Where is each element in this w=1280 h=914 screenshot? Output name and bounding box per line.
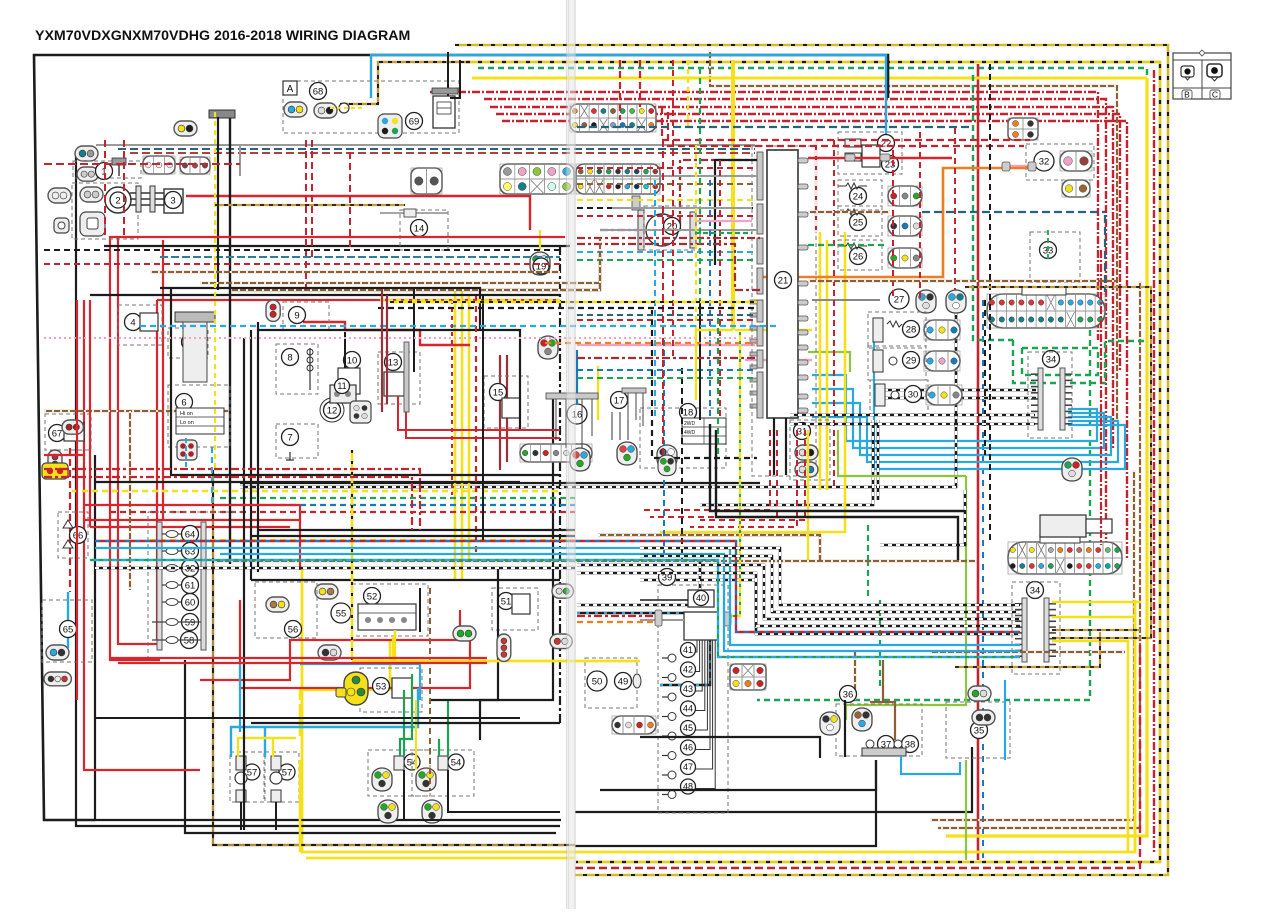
label 56 <box>285 621 302 638</box>
wire black below 21 a <box>773 418 775 475</box>
fuse 62 element <box>162 565 199 572</box>
wire black v x244 ext <box>243 588 245 830</box>
connector 4dot near 12 <box>350 401 371 423</box>
label 34 upper <box>1043 351 1060 368</box>
wire blueblack v x1105 <box>1104 215 1106 292</box>
svg-text:11: 11 <box>337 381 346 391</box>
svg-text:21: 21 <box>778 275 789 286</box>
wire brown trunk mid <box>230 250 600 290</box>
relay 51 <box>512 594 530 614</box>
connector below 55 <box>318 645 341 660</box>
connector 34 lower left bar <box>1015 598 1027 662</box>
connector (Gy) long center <box>520 444 592 462</box>
wire green belt <box>220 497 575 499</box>
dashed box 4 <box>118 305 162 345</box>
switch table 18 <box>682 418 726 444</box>
wire blue 16 v <box>576 350 578 404</box>
svg-text:67: 67 <box>52 428 63 439</box>
label fuse 60 <box>182 594 199 611</box>
dashed box 56 <box>255 582 317 638</box>
wire black L pair b <box>716 430 958 560</box>
wire red h y320 right <box>577 319 757 321</box>
wire black v x483 <box>482 296 484 540</box>
connector 32 oval <box>1060 151 1092 171</box>
wire brown h y283 <box>200 238 600 283</box>
wire yellow 57 area v <box>299 760 302 852</box>
label 52 <box>364 588 381 605</box>
page seam overlay <box>566 0 576 909</box>
wire green bottom left drop <box>867 525 869 560</box>
wire maroon v pair 2 <box>506 355 508 462</box>
label 6 <box>176 394 193 411</box>
svg-text:2: 2 <box>115 195 120 206</box>
inline resistor 24 <box>838 183 867 189</box>
label 66 <box>70 527 87 544</box>
wire black top-left col <box>250 330 252 580</box>
wire yellow drop 57-2 <box>272 738 274 757</box>
wire yellow 28 stub <box>735 329 812 332</box>
svg-text:41: 41 <box>683 645 693 655</box>
inline fuse 14 <box>380 209 448 217</box>
wire yellow nest right 3 <box>1052 641 1128 852</box>
label 57-2 <box>279 764 295 780</box>
battery bar <box>209 110 235 118</box>
sensor stub 47 <box>662 771 676 779</box>
dashed box 8 <box>276 344 318 394</box>
label 15 <box>490 384 507 401</box>
wire brown v 53 <box>429 588 431 790</box>
wire black row b3 <box>577 565 1020 619</box>
wire black solid y536 <box>252 535 575 537</box>
wire green fan <box>695 232 752 234</box>
label 10 <box>344 352 361 369</box>
wire red v x955 <box>954 128 956 290</box>
wire pink 32 <box>1008 165 1034 167</box>
label 9 <box>289 307 306 324</box>
connector tri 18 a <box>570 448 590 471</box>
wire black h y737 <box>640 737 820 758</box>
wire brown right col 2 <box>938 281 1140 828</box>
dashed box 67 <box>45 414 91 450</box>
dashed box 57-1 <box>230 752 264 802</box>
label 44 <box>681 701 696 716</box>
svg-text:30: 30 <box>908 389 919 400</box>
label 27 <box>889 289 909 309</box>
wire red v x920 <box>919 132 921 300</box>
wire maroon v x382 <box>381 289 383 412</box>
wire brown row y212 <box>808 211 890 213</box>
wire maroon v x387 <box>386 295 388 404</box>
wire maroon row y358 <box>577 357 757 359</box>
label 39 <box>659 569 676 586</box>
label 17 <box>611 392 628 409</box>
wire green row y245 <box>808 244 885 246</box>
svg-text:9: 9 <box>294 310 299 321</box>
connector 32 oval b <box>1062 180 1090 197</box>
wire belt right red 1 <box>577 167 757 169</box>
dashed box 54-1 <box>368 750 430 796</box>
wire green 54 <box>403 690 405 756</box>
wire sky-blue bus loop 1 <box>812 375 1097 441</box>
label 8 <box>282 349 299 366</box>
connector 34 upper right bar <box>1060 368 1072 430</box>
sensor stub 43 <box>662 693 676 701</box>
wire red left col 1 <box>84 300 200 770</box>
connector 34 lower right bar <box>1044 598 1056 662</box>
connector seam a <box>552 584 573 598</box>
svg-text:Lo on: Lo on <box>180 420 194 426</box>
connector tri below 17 b <box>657 445 677 468</box>
svg-text:36: 36 <box>843 689 854 700</box>
dashed box 34 upper <box>1028 352 1072 438</box>
wire blue dash h y370 <box>577 369 757 371</box>
sensor stub 45 <box>662 732 676 740</box>
wire red v x157 <box>156 300 158 640</box>
wire sky-blue bus loop 2 <box>812 389 1104 448</box>
label 65 <box>60 621 77 638</box>
dashed box 35 <box>946 702 1010 758</box>
svg-text:10: 10 <box>347 355 358 366</box>
wire sky-blue bus loop 3 <box>812 403 1111 455</box>
trunk black left vertical 2 <box>95 455 561 820</box>
label 4 <box>125 314 142 331</box>
label 1 <box>96 163 113 180</box>
sensor 12 sym <box>320 398 344 422</box>
wire yellow nest right 2 <box>1052 617 1135 852</box>
wire yellow bus area v2 <box>826 240 829 490</box>
wire red bundle bus right v1 <box>700 430 805 520</box>
svg-text:YXM70VDXGNXM70VDHG 2016-2018 W: YXM70VDXGNXM70VDHG 2016-2018 WIRING DIAG… <box>35 28 410 44</box>
wire blue v x664 <box>663 340 665 560</box>
wire red h y663 <box>118 662 487 664</box>
wire brown h y272 <box>150 271 560 273</box>
connector tri 17 extra <box>658 455 676 476</box>
fuse 63 element <box>162 548 199 555</box>
label 19 <box>533 258 549 274</box>
svg-text:26: 26 <box>853 251 864 262</box>
wire yellow left-center v2 <box>461 290 464 580</box>
wire red v x110 <box>110 236 160 660</box>
wire brown/yellow bottom left <box>213 470 575 845</box>
fan motor 20 <box>632 196 696 250</box>
dashed box 9 <box>283 302 329 330</box>
wire red v right of bus <box>833 140 835 490</box>
sensor 11 block <box>330 385 356 403</box>
relay 69 box <box>433 96 455 128</box>
dashed box 33 <box>1030 232 1080 282</box>
wire red dash v x70 <box>69 448 71 592</box>
plug 7 <box>286 452 294 460</box>
hanging pins 17 <box>628 393 643 426</box>
svg-text:29: 29 <box>906 355 917 366</box>
wire cyan belt 2 <box>211 447 213 505</box>
wire red v x118 <box>118 236 160 644</box>
fuse 64 element <box>162 531 199 538</box>
pump 37-38 <box>862 740 906 756</box>
label 32 <box>1034 151 1054 171</box>
ECU connector (B) right <box>987 294 1105 328</box>
wire red margin 5 <box>502 121 1127 560</box>
trunk black right half bottom <box>575 747 972 812</box>
sensor 30 sym <box>875 384 899 406</box>
stud 32 left <box>1028 162 1036 171</box>
wire red/white margin 1 <box>430 92 1098 340</box>
wire red dash v x306 <box>305 140 307 292</box>
wire cyan/black row y315 <box>577 314 757 316</box>
svg-text:C: C <box>1212 90 1218 100</box>
wire black dash long y398 <box>876 397 1036 400</box>
dashed box 14 <box>400 210 448 250</box>
gray bar above 16 <box>546 393 598 399</box>
connector block mid-right (B) <box>576 164 660 194</box>
wire red box corner tr <box>662 107 1030 140</box>
wire cyan 53 route <box>300 664 420 700</box>
junction box 21 body <box>767 150 798 418</box>
wire red/blue row y541 <box>95 541 1020 632</box>
connector small sq <box>54 218 69 233</box>
wire yellow short 19 <box>539 230 541 250</box>
wire red v x720 mid <box>719 160 721 420</box>
wire red dash v x350 <box>349 152 351 250</box>
connector 33 area sq <box>1008 118 1038 140</box>
wire yellow long vertical x732 <box>731 60 735 330</box>
label 38 <box>902 736 919 753</box>
connector 54-1 tri b <box>378 800 398 823</box>
injector 57-2 <box>270 756 282 802</box>
dashed box 57-2 <box>265 752 299 802</box>
wire gray fan <box>612 207 752 209</box>
connector 65 b <box>44 672 71 686</box>
starter relay 3 box <box>164 189 183 213</box>
yellow connector block <box>42 463 68 479</box>
wire yellow v x696 <box>695 145 697 332</box>
wire black dash y415 <box>790 414 1035 417</box>
wire blue of pair <box>982 300 984 860</box>
wire yellow dash v x215 <box>214 112 216 470</box>
connector yellow/black top <box>174 121 197 136</box>
connector (B) right lower <box>1008 542 1122 574</box>
connector 69 4pin <box>378 114 402 138</box>
wire red v x640 top <box>639 60 641 107</box>
controller body <box>684 612 718 640</box>
wire black dash left of comb <box>640 580 1020 634</box>
wire yellow right col solid <box>946 78 1147 836</box>
svg-text:45: 45 <box>683 723 693 733</box>
wire olive h y205 <box>215 204 405 206</box>
connector tab right lower <box>1040 535 1080 543</box>
wire dark-red dash diag bundle <box>600 160 757 230</box>
connector 31 a <box>795 445 818 460</box>
fuse rail left <box>157 522 162 650</box>
wire black 57 drops b <box>275 802 277 830</box>
label 54-2 <box>448 754 464 770</box>
wire black box mid <box>258 330 520 430</box>
wire orange dash h y343 <box>545 342 757 344</box>
label 13 <box>385 354 402 371</box>
wire sky-blue top <box>371 55 886 146</box>
wire sky-blue bus loop 5 <box>874 340 1125 469</box>
wire red box corner tr2 <box>668 112 1024 146</box>
svg-text:25: 25 <box>853 217 864 228</box>
svg-text:47: 47 <box>683 762 693 772</box>
svg-text:68: 68 <box>313 86 324 97</box>
connector block top-middle (B) <box>570 104 656 132</box>
wire black dash v x965 <box>880 490 965 545</box>
wire harness outer yellow/black <box>455 45 1168 875</box>
wire red branch 58 <box>200 610 460 680</box>
label 53 <box>373 678 390 695</box>
label 50 <box>587 671 607 691</box>
wire brown v x130 <box>129 411 131 590</box>
wire black v 414 <box>413 288 415 372</box>
label 46 <box>681 740 696 755</box>
wire green inner box 34 <box>1022 348 1098 375</box>
wire yellow/black row y302 <box>390 301 757 303</box>
wire black row b4 <box>577 573 1020 626</box>
connector tri right mid <box>1062 458 1082 481</box>
wire belt right gray <box>577 175 757 177</box>
stud 32 outer <box>1002 162 1010 171</box>
wire blue/black h y149 <box>118 148 755 150</box>
wire green vertical center-right <box>973 75 1013 340</box>
wire blue/green row y560 <box>90 560 1020 657</box>
wire brown right col 1 <box>930 470 1134 820</box>
wire blueblack h y127 <box>577 126 973 128</box>
label 47 <box>681 760 696 775</box>
wire yellow v x808 low <box>807 430 809 560</box>
dashed box 6 <box>168 385 230 447</box>
sensor 28 sym <box>873 318 902 342</box>
wire yellow to 52 <box>300 640 390 700</box>
wire black solid y530 <box>258 529 575 531</box>
wire yellow/black v x352 <box>351 450 354 660</box>
wire red h y237 <box>110 236 565 238</box>
svg-text:54: 54 <box>451 757 462 768</box>
sensor stub 41 <box>662 654 676 662</box>
svg-text:51: 51 <box>501 596 512 607</box>
wire lime horizontal y476 <box>838 430 966 476</box>
wire lime vertical <box>846 476 966 720</box>
wire red v x163 <box>162 240 164 520</box>
svg-text:65: 65 <box>63 624 74 635</box>
wire red dash y469 <box>44 469 420 530</box>
wire black h 475 <box>170 474 560 476</box>
valve 54-2 <box>438 756 448 770</box>
wire cyan row y548 <box>95 548 1020 645</box>
svg-text:50: 50 <box>592 676 603 687</box>
wire black h y246 <box>104 245 570 247</box>
wire red dash y477 <box>44 477 412 530</box>
wire red v x476 <box>475 296 477 556</box>
wire red 13 b <box>406 396 560 438</box>
label 42 <box>681 662 696 677</box>
wire green down to 36 <box>879 600 881 690</box>
svg-text:2WD: 2WD <box>684 421 696 427</box>
wire blue dash 6 <box>185 438 187 468</box>
wire cyan 65 <box>67 592 69 648</box>
wire yellow dash h y490 <box>72 490 560 492</box>
label 18 <box>680 404 697 421</box>
svg-text:7: 7 <box>287 432 292 443</box>
wire belt left of bus cyan <box>577 251 757 253</box>
wire black h 482 <box>95 481 520 483</box>
label 33 <box>1040 242 1057 259</box>
wire red h y658 <box>110 657 487 659</box>
label 37 <box>878 736 895 753</box>
svg-text:69: 69 <box>409 116 420 127</box>
wire olive out y630 <box>1052 629 1140 631</box>
wire harness loop brown/yellow outer <box>340 62 470 104</box>
wire maroon v pair 1 <box>499 355 501 470</box>
svg-text:52: 52 <box>367 591 378 602</box>
wire belt right yellow <box>577 199 757 201</box>
label 14 <box>411 220 428 237</box>
wire red margin 4 <box>496 114 1120 372</box>
label fuse 61 <box>182 577 199 594</box>
svg-text:56: 56 <box>288 624 299 635</box>
connector 28 oval <box>924 320 960 340</box>
svg-text:59: 59 <box>185 617 196 628</box>
connector 68 cyan/yellow <box>284 102 307 117</box>
dashed box 30 <box>870 380 928 414</box>
wire yellow v 52drop <box>392 636 394 661</box>
sensor 13 <box>384 372 404 396</box>
label 35 <box>971 722 988 739</box>
label 45 <box>681 721 696 736</box>
connector left (Gy) a <box>48 188 71 203</box>
wire black 21 left stubs join <box>715 160 757 265</box>
wire green 54 b <box>447 700 449 756</box>
wire 68 to relay yellow <box>330 107 365 109</box>
sensor 29 sym <box>873 350 897 372</box>
dashed box 28 <box>868 312 926 348</box>
connector mid tri1 <box>538 336 558 359</box>
connector 68 b <box>314 103 337 118</box>
wire cyan row y554 <box>220 554 1020 651</box>
label 24 <box>850 188 867 205</box>
wire green 53 link <box>400 674 412 756</box>
wire brown center h y535 <box>598 535 820 560</box>
legend box B C <box>1173 50 1231 100</box>
fitting red row a <box>845 154 855 161</box>
connector 36 tri a <box>820 712 840 735</box>
dashed box 18 <box>640 408 726 468</box>
trunk black center tall <box>559 246 561 726</box>
wire red diag bundle b <box>650 430 777 517</box>
connector 31 b <box>795 462 818 477</box>
wire yellow margin top <box>472 77 1147 80</box>
connector (B) 6pin bottom <box>730 664 766 690</box>
wire olive out y638 <box>1052 560 1151 638</box>
wire red belt <box>110 511 575 513</box>
connector tri below 17 <box>617 442 637 465</box>
inline resistor 26 <box>838 243 867 249</box>
fuse 49 sym <box>633 674 641 688</box>
label 29 <box>903 352 920 369</box>
wire black/white bundle h1 <box>240 300 956 487</box>
wire green dash mid v x868 <box>867 560 869 600</box>
label 48 <box>681 779 696 794</box>
dashed box 32 <box>1026 144 1094 180</box>
connector 54-2 tri b <box>422 800 442 823</box>
wire black bottom right v <box>600 760 876 790</box>
connector 65 <box>46 645 69 660</box>
coil 8 <box>307 348 313 390</box>
svg-text:35: 35 <box>974 725 985 736</box>
dashed box 31 <box>790 420 830 480</box>
dashed box component 1 row <box>73 161 141 178</box>
label 12 <box>324 402 341 419</box>
